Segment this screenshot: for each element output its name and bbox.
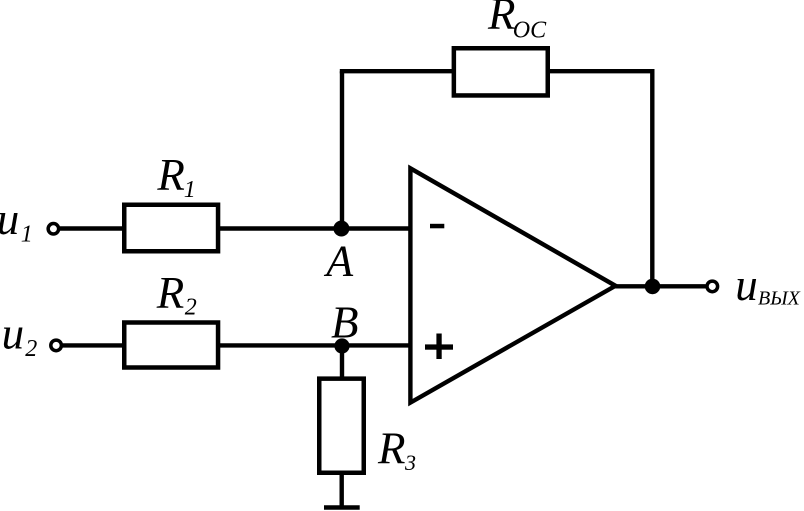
svg-text:2: 2 bbox=[25, 336, 37, 362]
svg-text:u: u bbox=[735, 260, 758, 310]
svg-text:u: u bbox=[0, 194, 19, 244]
svg-text:R: R bbox=[156, 268, 185, 318]
svg-text:R: R bbox=[156, 150, 185, 200]
svg-text:2: 2 bbox=[185, 295, 197, 321]
svg-text:ВЫХ: ВЫХ bbox=[758, 287, 801, 309]
svg-text:R: R bbox=[487, 0, 516, 39]
svg-text:ОС: ОС bbox=[513, 18, 547, 44]
svg-text:A: A bbox=[323, 237, 354, 286]
svg-text:B: B bbox=[331, 298, 359, 348]
svg-text:3: 3 bbox=[404, 450, 416, 475]
svg-text:1: 1 bbox=[184, 177, 196, 203]
svg-text:R: R bbox=[377, 424, 406, 474]
svg-text:u: u bbox=[2, 308, 25, 358]
svg-text:1: 1 bbox=[21, 222, 33, 248]
